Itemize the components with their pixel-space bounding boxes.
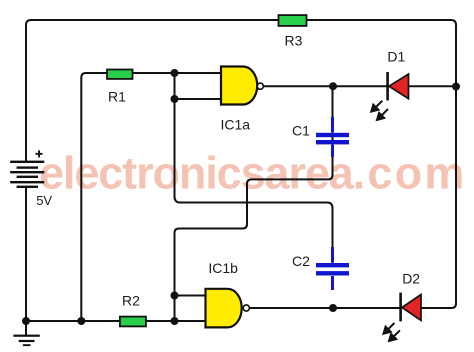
svg-text:IC1b: IC1b xyxy=(208,260,238,276)
svg-text:D2: D2 xyxy=(402,271,420,287)
svg-text:electronicsarea.com: electronicsarea.com xyxy=(39,148,467,199)
svg-text:R2: R2 xyxy=(122,293,140,309)
svg-text:D1: D1 xyxy=(387,49,405,65)
svg-text:R3: R3 xyxy=(285,33,303,49)
svg-text:C1: C1 xyxy=(292,123,310,139)
svg-text:C2: C2 xyxy=(292,253,310,269)
svg-text:R1: R1 xyxy=(108,89,126,105)
svg-text:IC1a: IC1a xyxy=(221,117,251,133)
svg-text:5V: 5V xyxy=(36,193,52,208)
